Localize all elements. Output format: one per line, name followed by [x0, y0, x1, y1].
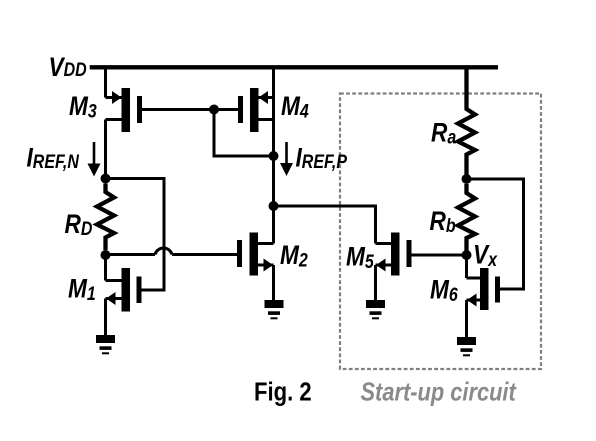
node Vx dot	[462, 250, 472, 260]
transistor M5 (NMOS)	[376, 233, 412, 276]
VDD rail	[90, 65, 498, 69]
node: gate junction dot	[209, 105, 219, 115]
current arrow IREF,P	[280, 142, 293, 176]
wire: M1 source to ground	[104, 299, 107, 337]
transistor M2 (NMOS)	[237, 233, 274, 276]
wire: M5 source to ground	[374, 265, 377, 302]
wire: node A to M1 gate loop	[106, 179, 165, 291]
node: RD bottom dot	[101, 250, 111, 260]
wire: M6 source to ground	[465, 300, 468, 339]
wire: Ra-Rb node to M6 gate loop	[467, 179, 524, 289]
ground under M2	[265, 300, 284, 319]
node: Ra-Rb junction dot	[462, 174, 472, 184]
ground under M5	[366, 300, 385, 319]
resistor RD	[97, 184, 114, 251]
transistor M6 (NMOS)	[467, 268, 501, 310]
wire: M3 drain down to node A	[104, 120, 107, 179]
transistor M4 (PMOS)	[238, 88, 274, 132]
node: M2 drain dot	[269, 201, 279, 211]
wire: M5 gate to Vx node	[412, 254, 467, 257]
svg-text:Fig. 2: Fig. 2	[254, 378, 312, 407]
transistor M3 (PMOS)	[106, 88, 143, 132]
ground under M1	[96, 335, 115, 354]
node: M4 drain dot	[269, 151, 279, 161]
resistor Ra (with wire from VDD)	[458, 67, 475, 175]
resistor Rb	[458, 184, 475, 251]
wire: RD bottom down to M1 drain	[104, 255, 107, 281]
wire: M3 gate to M4 gate	[142, 108, 238, 111]
wire: M2 drain node to M5 drain	[274, 206, 376, 244]
wire: RD bottom to M2 gate (with hop)	[106, 248, 238, 255]
wire: VDD down through M4 to M2 drain	[272, 67, 275, 244]
ground under M6	[457, 337, 476, 356]
start-up circuit dashed box	[340, 94, 541, 370]
transistor M1 (NMOS)	[106, 268, 142, 312]
current arrow IREF,N	[88, 142, 101, 177]
wire: VDD to M3 source	[104, 67, 107, 98]
wire: Vx node down to M6 drain	[465, 255, 468, 278]
wire: gate junction down to M4 drain	[214, 110, 274, 157]
wire: M2 source to ground	[272, 265, 275, 302]
svg-text:Start-up circuit: Start-up circuit	[361, 378, 517, 407]
node A dot (top of RD)	[101, 174, 111, 184]
